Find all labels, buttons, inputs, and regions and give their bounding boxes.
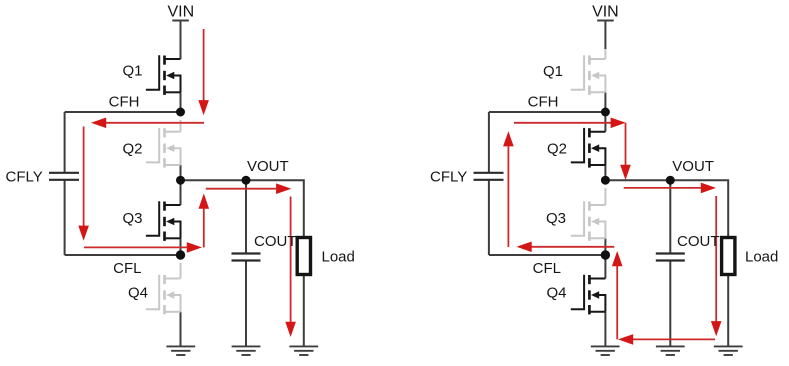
arrow red up at CFL (right)	[612, 251, 623, 266]
ground (left rail)	[166, 346, 195, 355]
arrow red right on VOUT wire (right)	[701, 183, 716, 194]
capacitor CFLY (left)	[49, 173, 79, 180]
transistor Q1 (on, black)	[146, 55, 181, 95]
red current path: CFLY through Q2 and Q4 (right)	[503, 118, 721, 345]
svg-text:COUT: COUT	[254, 233, 297, 250]
svg-text:CFLY: CFLY	[430, 169, 467, 186]
wire COUT top lead (right)	[669, 180, 671, 253]
arrow red down at CFH	[198, 100, 209, 115]
svg-text:Q4: Q4	[128, 285, 148, 302]
wire red down CFLY segment	[83, 127, 85, 227]
resistor Load (right)	[722, 238, 735, 275]
wire VIN to Q1 drain (right)	[604, 21, 606, 50]
wire COUT top lead	[245, 180, 247, 253]
transistor Q2 (on, black) (right)	[571, 128, 606, 168]
wire CFLY top lead (right)	[488, 112, 490, 172]
arrow red down at VOUT (right)	[620, 165, 631, 180]
wire red ground leftward segment (right)	[633, 338, 716, 340]
svg-text:CFL: CFL	[113, 260, 141, 277]
svg-text:VOUT: VOUT	[672, 158, 714, 175]
node CFL junction dot	[176, 250, 185, 259]
svg-text:Q2: Q2	[547, 141, 567, 158]
transistor Q1 (off, gray) drain lead (right)	[604, 49, 606, 59]
wire red up through Q4 segment (right)	[616, 266, 618, 339]
resistor Load (left)	[297, 238, 310, 275]
arrow red up at VOUT	[199, 194, 210, 209]
node VOUT junction dot at COUT (right)	[666, 176, 675, 185]
svg-text:Q4: Q4	[546, 285, 566, 302]
wire Q4 source to ground (right)	[604, 312, 606, 347]
arrow red right on VOUT wire	[276, 183, 291, 194]
wire VOUT horizontal to load branch (right)	[605, 180, 728, 237]
transistor Q4 (on, black) (right)	[571, 275, 606, 315]
wire red VIN down segment	[203, 29, 205, 101]
wire Q2 source to node VOUT	[180, 165, 182, 180]
node VIN terminal bar	[172, 20, 189, 22]
transistor Q4 (off, gray)	[146, 275, 181, 315]
wire red down through Q2 segment (right)	[625, 123, 627, 166]
wire CFLY bottom lead to CFL	[64, 180, 66, 255]
arrow red left on CFH wire	[91, 118, 106, 129]
wire VOUT horizontal to load branch	[181, 180, 304, 237]
svg-text:CFLY: CFLY	[6, 169, 43, 186]
wire node CFL to Q4 drain (right)	[604, 255, 606, 279]
capacitor COUT (left)	[232, 254, 261, 261]
svg-text:VIN: VIN	[167, 3, 194, 20]
ground (right rail)	[591, 346, 620, 355]
node CFL junction dot (right)	[601, 250, 610, 259]
wire red CFLY up segment (right)	[507, 147, 509, 248]
svg-text:COUT: COUT	[677, 233, 720, 250]
wire VOUT node to Q3 drain	[180, 180, 182, 205]
wire red VOUT rightward segment (right)	[624, 187, 702, 189]
arrow red left at rail ground (right)	[618, 334, 633, 345]
svg-text:Load: Load	[322, 249, 355, 266]
svg-text:Q3: Q3	[122, 210, 142, 227]
wire red CFL leftward segment (right)	[531, 246, 614, 248]
wire Q3 source to node CFL	[180, 238, 182, 255]
arrow red left on CFL wire (right)	[517, 242, 532, 253]
svg-text:CFH: CFH	[528, 93, 559, 110]
transistor Q2 (off, gray) drain lead	[180, 120, 182, 132]
wire Q4 source to ground	[180, 312, 182, 347]
wire red down to load ground segment	[290, 197, 292, 323]
arrow red down at load ground (right)	[711, 321, 722, 336]
node CFH junction dot	[176, 108, 185, 117]
wire red CFL rightward segment	[84, 246, 188, 248]
ground (left COUT)	[232, 346, 261, 355]
transistor Q1 (off, gray) (right)	[571, 55, 606, 95]
wire COUT bottom lead to ground (right)	[669, 261, 671, 346]
svg-text:VOUT: VOUT	[247, 158, 289, 175]
transistor Q3 (off, gray) (right)	[571, 201, 606, 241]
wire red up through Q3 segment	[203, 208, 205, 247]
arrow red right on CFH wire (right)	[611, 118, 626, 129]
transistor Q3 (off, gray) drain lead (right)	[604, 188, 606, 205]
wire red CFH rightward segment (right)	[514, 122, 612, 124]
wire Q1 source to node CFH	[180, 92, 182, 112]
wire COUT bottom lead to ground	[245, 261, 247, 346]
node VOUT junction dot at COUT	[242, 176, 251, 185]
svg-text:Q3: Q3	[546, 210, 566, 227]
svg-text:CFL: CFL	[533, 260, 561, 277]
wire CFLY top lead	[64, 112, 66, 172]
transistor Q3 (on, black)	[146, 201, 181, 241]
wire VIN to Q1 drain	[180, 21, 182, 60]
wire node CFH to Q2 drain (right)	[604, 112, 606, 132]
wire load bottom lead to ground	[303, 275, 305, 347]
ground (left load)	[289, 346, 318, 355]
svg-text:Q2: Q2	[122, 141, 142, 158]
wire node CFH horizontal	[65, 111, 181, 113]
node VIN terminal bar (right)	[597, 20, 614, 22]
wire red VOUT rightward segment	[206, 188, 276, 190]
wire node CFH horizontal (right)	[489, 111, 606, 113]
svg-text:CFH: CFH	[109, 93, 140, 110]
svg-text:Load: Load	[745, 249, 778, 266]
wire red down to load ground segment (right)	[715, 196, 717, 322]
red current path: VIN through Q1 (left)	[78, 29, 296, 337]
capacitor CFLY (right)	[474, 173, 504, 180]
svg-text:VIN: VIN	[592, 3, 619, 20]
transistor Q4 (off, gray) drain lead	[180, 263, 182, 279]
wire load bottom lead to ground (right)	[727, 275, 729, 347]
ground (right load)	[714, 346, 743, 355]
wire red CFH leftward segment	[106, 122, 205, 124]
ground (right COUT)	[656, 346, 685, 355]
node VOUT junction dot on rail	[176, 176, 185, 185]
wire CFLY bottom lead to CFL (right)	[488, 180, 490, 255]
svg-text:Q1: Q1	[122, 62, 142, 79]
arrow red right at Q3 source	[187, 242, 202, 253]
svg-text:Q1: Q1	[543, 63, 563, 80]
arrow red down at load ground	[285, 322, 296, 337]
node VOUT junction dot on rail (right)	[601, 176, 610, 185]
arrow red down at CFL	[78, 226, 89, 241]
node CFH junction dot (right)	[601, 108, 610, 117]
wire Q2 source to node VOUT (right)	[604, 165, 606, 180]
transistor Q2 (off, gray)	[146, 128, 181, 168]
arrow red up at CFH (right)	[503, 131, 514, 146]
wire CFL horizontal (right)	[489, 254, 606, 256]
wire Q1 source to node CFH (right)	[604, 92, 606, 112]
wire Q3 source to node CFL (right)	[604, 238, 606, 255]
wire CFL horizontal	[65, 254, 181, 256]
capacitor COUT (right)	[656, 254, 685, 261]
